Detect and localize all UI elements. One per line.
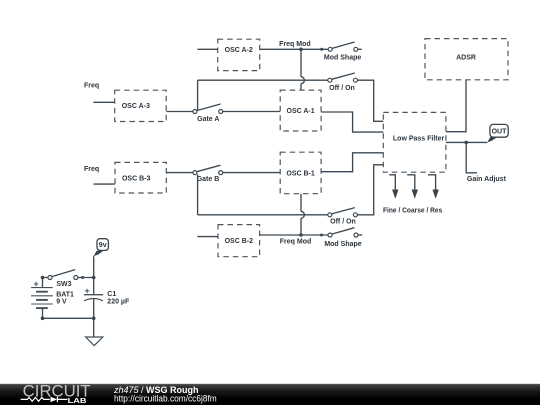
wire stub left of OSC A-2 [198,48,218,50]
svg-text:Freq: Freq [84,83,99,90]
switch Mod Shape (A) [324,42,362,62]
svg-text:9 V: 9 V [56,299,67,306]
block ADSR [425,39,508,80]
node top junction at C1 [92,276,96,280]
wire OSC A-3 to Gate A [166,111,193,113]
svg-text:OUT: OUT [492,128,508,135]
block OSC B-2 [218,225,260,257]
svg-text:220 µF: 220 µF [107,299,130,306]
switch Off / On (A) [328,73,358,92]
svg-text:9v: 9v [99,242,107,249]
svg-text:OSC A-2: OSC A-2 [225,47,253,54]
ground [86,337,103,346]
svg-text:Fine / Coarse / Res: Fine / Coarse / Res [383,207,442,214]
wire battery bottom [43,308,94,318]
svg-text:Freq Mod: Freq Mod [280,239,312,246]
wire 9v node down to capacitor [93,278,95,296]
wire Off/On B to Low Pass Filter [357,165,383,215]
pointer arrow 3 under LPF [428,175,439,199]
footer bar [0,384,540,405]
wire stub Freq B [93,183,115,185]
svg-text:Gain Adjust: Gain Adjust [467,176,507,183]
wire capacitor to ground [93,299,95,337]
capacitor C1 [84,289,130,306]
svg-text:C1: C1 [107,291,116,298]
wire OSC B-2 to Freq Mod node (B) [260,234,301,236]
block OSC A-2 [218,39,260,70]
wire Off/On A to Low Pass Filter [357,80,383,121]
wire stub left of OSC B-2 [197,236,218,238]
block OSC A-3 [115,90,167,121]
svg-text:http://circuitlab.com/cc6j8fm: http://circuitlab.com/cc6j8fm [114,393,217,403]
svg-text:Gate B: Gate B [197,176,220,183]
wire battery top to SW3 [43,278,49,288]
node Freq Mod (A) [279,41,311,51]
flag OUT [487,124,508,142]
flag 9v [93,239,108,257]
wire ADSR to Low Pass Filter [446,80,466,132]
switch Gate B [193,165,223,183]
svg-text:ADSR: ADSR [456,55,476,62]
node ground junction [92,317,96,321]
switch Off / On (B) [328,208,358,226]
pointer arrow 2 under LPF [407,175,418,199]
wire OSC B-1 down with hop over Off/On wire (B) [300,194,302,235]
wire OSC B-1 to Low Pass Filter [321,153,383,172]
svg-text:OSC B-1: OSC B-1 [286,170,315,177]
switch Mod Shape (B) [324,228,362,248]
wire Gate B down to Off/On row (B) [197,174,199,214]
wire OSC A-1 to Low Pass Filter [321,112,383,132]
pointer arrow 1 under LPF [389,175,398,199]
svg-text:OSC A-1: OSC A-1 [287,108,315,115]
block OSC A-1 [280,90,321,131]
wire stub Freq A [93,101,115,103]
node output junction [464,141,468,145]
node Freq Mod (B) [280,233,312,246]
logo CircuitLab [21,383,91,405]
svg-text:Mod Shape: Mod Shape [324,241,361,248]
block OSC B-3 [115,162,166,193]
svg-text:Mod Shape: Mod Shape [324,55,361,62]
wire Gate B to OSC B-1 [223,172,281,174]
switch Gate A [193,104,223,123]
svg-text:Freq: Freq [84,166,99,173]
svg-text:Off / On: Off / On [329,85,355,92]
svg-text:Low Pass Filter: Low Pass Filter [393,135,445,142]
svg-text:Gate A: Gate A [197,116,219,123]
switch SW3 [48,270,94,289]
wire Gate A to OSC A-1 [223,111,281,113]
node battery bottom corner [41,317,45,321]
battery BAT1 [31,282,74,308]
svg-text:OSC A-3: OSC A-3 [122,103,150,110]
wire Freq Mod vertical with hop over Off/On wire (A) [300,49,302,90]
wire Gate A up to Off/On row (A) [197,80,199,110]
wire 9v flag down to switch row [93,256,95,277]
wire Off/On row horizontal (B) [198,214,328,216]
svg-text:SW3: SW3 [56,281,71,288]
wire OSC A-2 to Freq Mod node [260,48,301,50]
wire Off/On row horizontal (A) [198,79,328,81]
svg-text:Off / On: Off / On [330,219,356,226]
svg-text:BAT1: BAT1 [56,291,74,298]
wire OSC B-3 to Gate B [166,172,193,174]
wire Freq Mod node to Mod Shape switch (A) [301,48,328,50]
wire Gain Adjust stub [466,142,477,172]
block Low Pass Filter [383,112,446,172]
block OSC B-1 [280,152,321,194]
svg-text:OSC B-3: OSC B-3 [122,176,151,183]
wire Freq Mod node to Mod Shape switch (B) [301,234,328,236]
svg-text:OSC B-2: OSC B-2 [225,238,254,245]
svg-text:Freq Mod: Freq Mod [279,41,311,48]
svg-text:LAB: LAB [68,396,87,405]
wire LPF output [446,141,487,143]
